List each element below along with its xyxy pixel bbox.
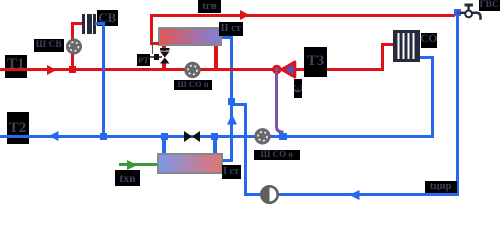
label Т2 (7, 112, 29, 145)
flow arrow DHW up (227, 114, 237, 125)
node I stage right port junction (211, 133, 218, 140)
label РТ (137, 54, 150, 66)
wire mixed bypass purple (273, 72, 287, 136)
wire radiator feed red (381, 43, 384, 71)
tap ГВС (460, 2, 485, 22)
svg-text:Э: Э (294, 84, 302, 93)
wire radiator return blue (420, 56, 434, 59)
wire T1 supply main red line (0, 68, 382, 71)
wire II stage outlet to main line (214, 46, 218, 69)
label Ш СО п (174, 80, 212, 90)
wire DHW riser blue (222, 36, 232, 39)
label tгв (198, 0, 221, 13)
flow arrow on T1 line (47, 65, 57, 75)
heat exchanger II stage (158, 27, 222, 46)
flow arrow Т2 (49, 131, 59, 141)
label СВ (97, 10, 118, 27)
wire cold water inlet green (119, 163, 157, 166)
wire circulation bottom (244, 193, 458, 196)
label Э (294, 79, 302, 98)
label Ш СВ (34, 39, 65, 53)
node tap junction (454, 9, 461, 16)
node СВ return junction (100, 133, 107, 140)
wire РТ valve to main line (162, 63, 166, 69)
label I ст (222, 165, 241, 179)
wire ГВС supply red to tap (150, 14, 455, 17)
label tхв (115, 170, 140, 187)
label Т3 (304, 47, 327, 78)
pump Ш СВ (65, 38, 83, 56)
sensor line РТ (152, 41, 154, 54)
node DHW junction (228, 98, 235, 105)
radiator СО (393, 30, 420, 62)
valve on Т2 line (184, 131, 200, 142)
pump Ш СО о (254, 128, 272, 146)
label ГВС (479, 0, 500, 11)
flow arrow tгв (240, 10, 250, 20)
label Т1 (5, 55, 27, 78)
three-way valve Т3 (270, 59, 298, 80)
node bypass junction (279, 133, 287, 140)
valve РТ temperature regulator (159, 48, 171, 65)
flow arrow circulation (349, 190, 360, 200)
heat exchanger I stage (157, 153, 223, 174)
heater СВ (82, 14, 85, 34)
label Ш СО о (254, 150, 301, 161)
pump circulation (260, 185, 280, 205)
label II ст (219, 22, 243, 36)
label СО (421, 33, 437, 48)
wire СВ return blue (95, 22, 105, 25)
node junction at pump ШСВ branch (69, 66, 76, 73)
wire Т2 return main blue (0, 135, 434, 138)
pump Ш СО п (184, 61, 202, 79)
label tцир (425, 181, 457, 193)
wire I stage left port (162, 137, 166, 153)
flow arrow tхв (127, 160, 138, 170)
wire circulation branch (232, 103, 247, 106)
node I stage left port junction (161, 133, 168, 140)
wire I stage right port (213, 137, 217, 153)
wire exchanger port to РТ valve (162, 46, 166, 51)
wire riser to pump ШСВ (71, 22, 74, 69)
